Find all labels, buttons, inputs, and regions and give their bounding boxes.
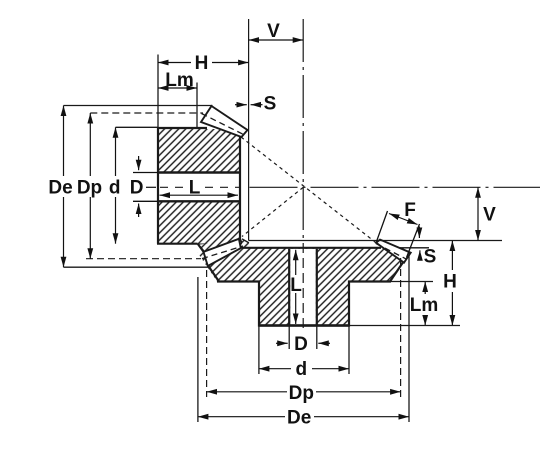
gear G2 top face line [242,247,381,249]
solid extension line De top of pinion [64,105,213,107]
dimension H right [451,241,453,326]
svg-text:H: H [443,272,457,293]
svg-text:H: H [195,53,209,74]
dimension S top (converging arrows) [235,104,263,106]
pinion G1 top tooth (white) [201,106,248,137]
dimension De gear [198,416,409,418]
pinion G1 hub bore lines [158,171,240,173]
svg-text:Lm: Lm [410,295,439,316]
dimension De left [63,106,65,268]
pinion G1 outline: bottom face [157,243,198,245]
dimension H top [158,62,249,64]
mounting plane vertical line (tooth tip plane of pinion) [248,19,250,241]
svg-text:D: D [294,334,308,355]
pinion G1 bottom tooth pitch line (dashed) [202,246,243,259]
dimension V right [477,187,479,240]
svg-text:L: L [290,275,302,296]
wire: vertical centerline of gear axis through bore [302,243,304,328]
pitch cone contact diagonal (dotted, through center) [241,137,376,243]
solid extension line d top of pinion [116,126,159,128]
gear G2 outline: wide-part bottom and step [217,282,391,326]
dimension d gear [259,368,349,370]
dimension S bottom right (converging arrows) [400,227,429,261]
gear G2 left tooth (hatched, behind pinion tooth) [198,239,244,253]
svg-text:Lm: Lm [165,70,194,91]
svg-text:Dp: Dp [289,383,314,404]
gear G2 hub band (hatched) [259,282,349,326]
solid extension line De bottom of pinion [64,266,210,268]
svg-text:d: d [109,178,121,199]
gear G2 bore (white strip) [290,249,316,326]
extension lines below gear: outer diameter (solid) [197,277,199,422]
dimension L pinion hub [160,194,239,196]
gear G2 bottom face line across bore [259,324,349,327]
svg-text:De: De [48,178,72,199]
dimension F (tooth face width, slanted) [377,211,420,258]
extension line for H/Lm left (pinion left face extended) [157,55,159,129]
svg-text:S: S [264,94,277,115]
gear G2 right tooth (white) [376,240,411,263]
dimension Lm right [424,282,426,326]
dimension Dp gear [207,391,401,393]
svg-text:Dp: Dp [77,178,102,199]
svg-text:d: d [295,359,307,380]
dashed pitch extension line bottom (Dp of pinion) [86,258,201,260]
wire: horizontal centerline of pinion axis (inside hub) [160,19,540,328]
svg-text:De: De [287,408,311,429]
wire: vertical centerline of gear axis upper portion [302,19,304,241]
gear G2 outline: right back-cone face [390,253,410,282]
pinion G1 lower hatched band [159,202,239,244]
pinion G1 bottom tooth connector edge [198,244,204,252]
svg-text:F: F [404,200,416,221]
mounting plane horizontal line (tooth tip plane of gear) [249,240,502,242]
pitch cone diagonal lower-left (dotted) [242,187,303,236]
svg-text:S: S [424,247,437,268]
dimension Lm top [158,87,197,89]
svg-text:L: L [189,178,201,199]
pinion G1 bottom tooth (white) [204,239,241,266]
svg-text:D: D [130,178,144,199]
dimension V top [249,39,304,41]
dimension d left [115,127,117,243]
extension line tip-plane to right for H (y=281.5) [391,281,433,283]
pinion G1 outline: left face [157,128,159,244]
dashed pitch extension line top (Dp of pinion) [90,112,203,114]
pinion G1 top tooth pitch line (dashed) [202,114,246,136]
extension lines below gear: pitch diameter (dashed) [206,270,208,397]
extension lines below gear: hub faces [258,326,260,375]
svg-text:V: V [483,205,496,226]
wire: horizontal centerline right portion [250,186,541,188]
extension line gear bottom to right (y=325.5) [349,325,460,327]
pinion G1 (left bevel gear) upper hatched band [157,106,248,266]
extension lines below gear: bore edges [288,326,290,350]
dimension D left (pinion bore, converging arrows) [133,156,158,217]
dimension D gear (bore, converging arrows) [276,342,330,344]
svg-text:V: V [267,21,280,42]
gear G2 bore edge lines [288,249,290,326]
extension line for Lm right [196,83,198,129]
pinion G1 outline: right back face [239,136,241,240]
dimension L gear bore [295,250,297,324]
dimension Dp left [89,113,91,259]
gear G2 (bottom bevel gear) hatched wide band [198,239,411,326]
pinion G1 outline: top face [157,127,207,129]
gear G2 outline: left back-cone face [208,266,219,282]
gear G2 right tooth pitch line (dashed) [376,244,406,259]
gear G2 left tooth flank piece right of pinion tooth [242,239,249,248]
